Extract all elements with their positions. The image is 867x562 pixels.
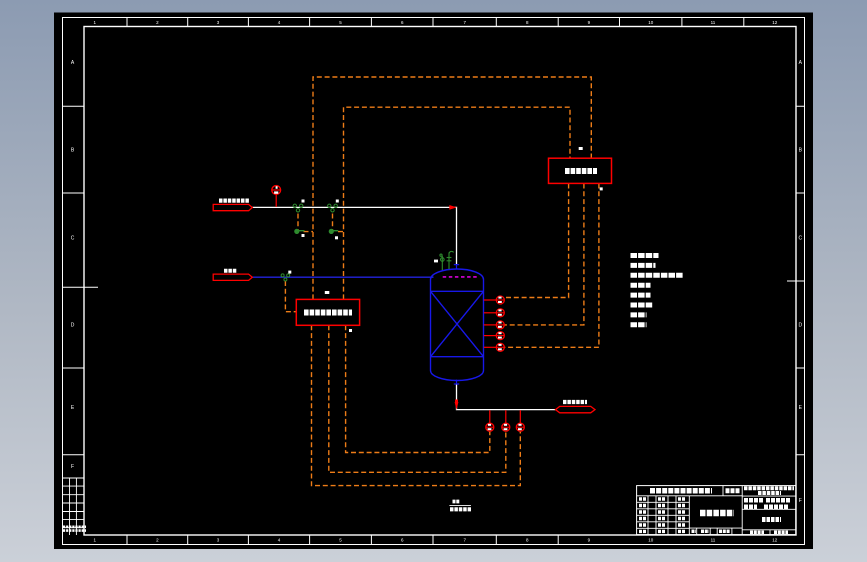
bottom bubble 1 [486, 410, 494, 431]
top nozzle [454, 265, 459, 269]
legend line 8 [631, 322, 647, 327]
bottom bubble 2 [502, 410, 510, 431]
right box label [565, 168, 597, 174]
svg-text:11: 11 [711, 20, 716, 25]
left box label [304, 310, 352, 316]
actuator FV1 [295, 229, 305, 233]
left interlock box [296, 299, 359, 325]
legend line 4 [631, 283, 651, 288]
drawing number [750, 520, 788, 533]
steam line [252, 207, 456, 264]
svg-text:C: C [798, 236, 802, 242]
bottom nozzle [454, 380, 459, 384]
vent valve 1 [440, 254, 444, 270]
left zone dividers [63, 106, 99, 455]
tag at vent valves [434, 260, 438, 263]
binding note text [63, 527, 86, 531]
svg-text:D: D [71, 323, 75, 329]
tag under FV1 [302, 234, 305, 237]
vessel shell [431, 265, 484, 384]
revision grid bottom-left [63, 478, 85, 535]
legend line 5 [631, 293, 651, 298]
tag FV1 [302, 200, 305, 203]
tower bubble 5 [484, 343, 505, 351]
steam inlet flag [213, 204, 252, 210]
control valve FV1 [293, 204, 303, 212]
svg-text:F: F [799, 498, 802, 504]
tag LV [288, 271, 291, 274]
tag FV2 [336, 200, 339, 203]
valve FV1 signal stub [298, 214, 313, 232]
top zone numbers [93, 20, 777, 25]
tag above right box [579, 147, 583, 150]
tower bubble 4 [484, 332, 505, 340]
vent valve 2 [447, 251, 454, 269]
outlet flow arrow [455, 402, 459, 410]
tag below right box [600, 187, 603, 190]
right box signal to tower bubble 1 [504, 184, 568, 298]
legend line 6 [631, 303, 653, 308]
legend line 1 [631, 253, 659, 258]
valve LV signal stub [285, 281, 296, 312]
tower bubble 3 [484, 321, 505, 329]
right zone dividers [787, 106, 805, 455]
instrument bubble PI steam [272, 186, 281, 207]
packing cross [431, 291, 484, 356]
svg-text:F: F [71, 464, 74, 470]
right interlock box [549, 158, 612, 183]
project title text right column [744, 488, 794, 507]
tower bubble 1 [484, 296, 505, 304]
sheet name text [692, 513, 735, 531]
right box signal to tower bubble 3 [504, 184, 584, 325]
outlet flag label [563, 400, 587, 404]
control valve LV [281, 274, 290, 281]
right box signal to tower bubble 5 [504, 184, 599, 348]
caustic feed line [252, 276, 433, 278]
steam flag label [219, 199, 249, 203]
svg-text:11: 11 [711, 538, 716, 543]
left zone letters [71, 60, 75, 470]
bottom zone dividers [127, 535, 558, 545]
legend line 2 [631, 263, 656, 268]
svg-text:10: 10 [648, 538, 654, 543]
inner drawing border [84, 27, 796, 536]
liquid distributor [443, 276, 478, 278]
actuator FV2 [329, 229, 338, 233]
signature rows text [639, 499, 686, 531]
svg-text:C: C [71, 236, 75, 242]
svg-text:12: 12 [772, 538, 778, 543]
steam flow arrow [449, 205, 456, 210]
tag under FV2 [335, 236, 338, 239]
valve FV2 signal stub [333, 214, 344, 232]
svg-text:12: 12 [772, 20, 778, 25]
legend line 7 [631, 312, 647, 317]
bottom zone numbers [93, 538, 777, 543]
outlet flag [556, 406, 596, 412]
university name text [650, 488, 740, 494]
title block outline [637, 486, 796, 535]
left box signal to bubble 3 [312, 325, 521, 485]
tag below left box [349, 329, 352, 332]
svg-text:D: D [798, 323, 802, 329]
tower bubble 2 [484, 309, 505, 317]
caustic inlet flag [213, 274, 252, 280]
title block grid lines [637, 486, 796, 535]
bottom outlet line [457, 384, 556, 409]
top zone dividers [127, 18, 744, 27]
signal loop outer [313, 77, 591, 299]
signal loop inner [344, 107, 571, 299]
svg-text:10: 10 [648, 20, 654, 25]
tag above left box [325, 291, 330, 294]
legend line 3 [631, 273, 684, 278]
left box signal to bubble 2 [329, 325, 506, 472]
right zone letters [798, 60, 802, 504]
bottom bubble 3 [516, 410, 524, 431]
left box signal to bubble 1 [346, 325, 490, 452]
caustic flag label [224, 269, 237, 273]
control valve FV2 [328, 204, 338, 212]
